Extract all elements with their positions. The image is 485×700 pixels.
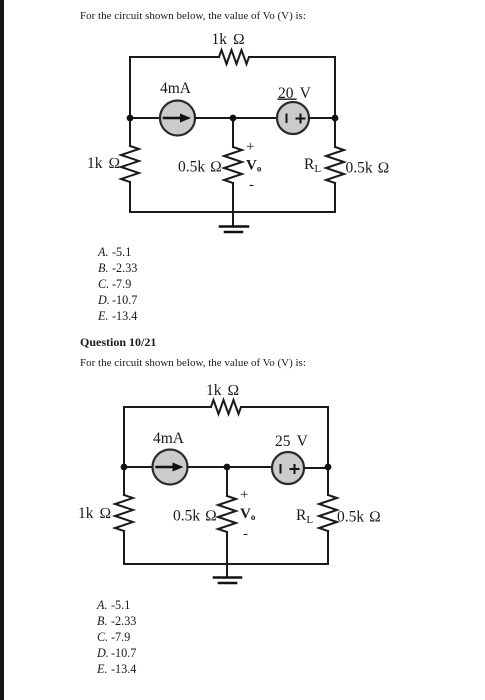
node: middle [230,115,237,122]
svg-text:0.5k Ω: 0.5k Ω [346,160,390,177]
circuit 2 [0,350,485,600]
svg-text:+: + [246,139,254,155]
wire: middle branch upper [226,467,228,496]
wire: right branch upper [327,407,329,495]
value label 4mA [160,80,192,97]
svg-text:25 V: 25 V [275,433,309,450]
svg-text:Vo: Vo [246,158,262,174]
resistor RL 0.5k (right branch) [319,495,337,531]
wire: left branch lower [129,182,131,212]
resistor 1k (left branch) [115,495,133,531]
wire: current source to middle node [188,466,228,468]
value label 1k Ohm (left resistor) [78,505,111,522]
label RL [304,156,321,175]
ground symbol [214,578,241,584]
wire: middle branch lower [232,183,234,226]
svg-text:0.5k Ω: 0.5k Ω [173,508,217,525]
wire: middle rail node to current source [130,117,160,119]
wire: current source to middle node [195,117,233,119]
resistor 0.5k (middle branch) [224,147,242,183]
value label 1k Ohm (left resistor) [87,155,120,172]
label Vo [240,506,256,522]
wire: middle node to voltage source [227,466,272,468]
answers list 2 [97,598,130,613]
wire: middle branch upper [232,118,234,147]
wire: top rail right segment [249,56,335,58]
wire: middle branch lower [226,532,228,577]
question prompt 1 [80,10,306,22]
question prompt 2 [80,357,306,369]
resistor 1k (left branch) [121,146,139,182]
wire: right branch lower [334,183,336,212]
wire: top rail left segment [124,406,211,408]
label - (Vo polarity) [243,526,248,542]
wire: voltage source to right node [304,467,328,469]
svg-text:RL: RL [304,156,321,175]
wire: top rail left segment [130,56,219,58]
wire: bottom rail [124,563,328,565]
node: right [325,464,332,471]
value label 1k Ohm (top resistor) [212,31,245,48]
resistor 0.5k (middle branch) [218,496,236,532]
resistor RL 0.5k (right branch) [326,147,344,183]
node: left [127,115,134,122]
circuit 1 [0,0,485,340]
svg-text:0.5k Ω: 0.5k Ω [178,159,222,176]
svg-text:-: - [243,526,248,542]
voltage source 25V [272,452,304,484]
svg-text:1k Ω: 1k Ω [78,505,111,522]
svg-text:4mA: 4mA [153,430,185,447]
value label 0.5k Ohm (middle resistor) [178,159,222,176]
svg-text:0.5k Ω: 0.5k Ω [337,509,381,526]
wire: bottom rail [130,211,335,213]
label RL [296,507,313,526]
label Vo [246,158,262,174]
wire: voltage source to right node [309,117,335,119]
heading [80,335,156,350]
svg-text:Vo: Vo [240,506,256,522]
value label 20 V (underlined) [278,85,312,102]
wire: right branch upper [334,57,336,147]
current source 4mA [153,450,188,485]
svg-text:1k Ω: 1k Ω [206,382,239,399]
answers list 1 [98,245,131,260]
svg-text:4mA: 4mA [160,80,192,97]
current source 4mA [160,101,195,136]
svg-text:RL: RL [296,507,313,526]
wire: middle rail node to current source [124,466,152,468]
svg-text:-: - [249,177,254,193]
ground symbol [220,227,248,233]
left page edge black bar [0,0,4,700]
svg-text:1k Ω: 1k Ω [212,31,245,48]
svg-text:1k Ω: 1k Ω [87,155,120,172]
value label 1k Ohm (top resistor) [206,382,239,399]
wire: left branch lower [123,531,125,564]
wire: right branch lower [327,531,329,564]
resistor 1k (top) [211,400,241,414]
value label 25 V [275,433,309,450]
wire: left branch upper [123,407,125,495]
value label 0.5k Ohm (middle resistor) [173,508,217,525]
node: middle [224,464,231,471]
label + (Vo polarity) [240,487,248,503]
resistor 1k (top) [219,50,249,64]
value label 4mA [153,430,185,447]
value label 0.5k Ohm (RL) [346,160,390,177]
value label 0.5k Ohm (RL) [337,509,381,526]
node: right [332,115,339,122]
label - (Vo polarity) [249,177,254,193]
node: left [121,464,128,471]
voltage source 20V [277,102,309,134]
wire: top rail right segment [241,406,328,408]
wire: middle node to voltage source [233,117,277,119]
svg-text:+: + [240,487,248,503]
wire: left branch upper [129,57,131,146]
label + (Vo polarity) [246,139,254,155]
